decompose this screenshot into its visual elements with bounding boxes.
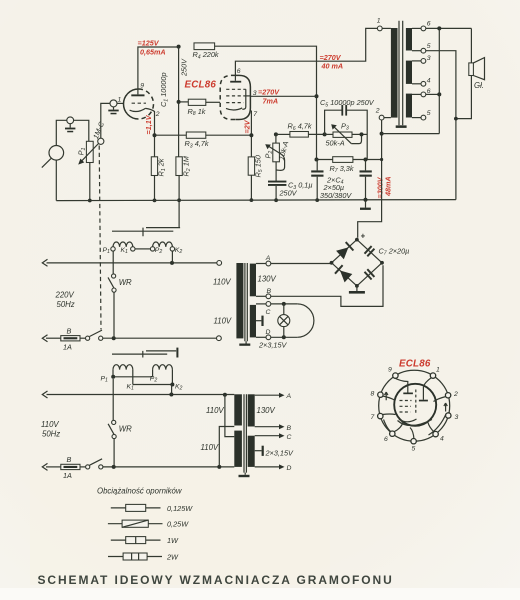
- svg-text:=1,1V: =1,1V: [144, 114, 153, 134]
- svg-text:B: B: [67, 455, 72, 464]
- socket pin 4: [433, 431, 438, 436]
- mains terminal 110V L: [42, 391, 47, 398]
- triode section ECL86: [124, 89, 155, 119]
- tap A (110V): [255, 394, 280, 396]
- svg-text:130V: 130V: [258, 274, 277, 283]
- svg-text:1W: 1W: [167, 536, 179, 545]
- svg-text:7mA: 7mA: [263, 96, 279, 105]
- svg-text:Gł.: Gł.: [474, 81, 484, 90]
- socket pin 9: [393, 373, 398, 378]
- filament screen tap (110V): [255, 450, 262, 452]
- svg-text:5: 5: [427, 110, 431, 117]
- svg-text:C: C: [266, 309, 271, 316]
- node R6/P3/C5 junction: [323, 132, 327, 136]
- terminal 3: [412, 60, 421, 62]
- svg-text:Obciążalność oporników: Obciążalność oporników: [97, 487, 183, 496]
- svg-text:50k-A: 50k-A: [326, 138, 345, 147]
- svg-text:2×3,15V: 2×3,15V: [265, 449, 295, 458]
- svg-text:+: +: [361, 232, 366, 241]
- svg-text:1: 1: [118, 96, 122, 103]
- svg-text:0,25W: 0,25W: [167, 520, 189, 529]
- wire R2 down through bus to heater screen: [178, 176, 180, 228]
- node C1/R4 junction: [177, 45, 181, 49]
- node bus/C4b/ground: [364, 198, 368, 202]
- svg-text:P2: P2: [150, 376, 158, 384]
- mains terminal 110V N: [42, 463, 47, 470]
- svg-text:K1: K1: [121, 247, 129, 255]
- wire K2 to mains (110V): [171, 385, 173, 395]
- output transformer Tr-glosnikowy: [391, 21, 412, 128]
- wire R3 left to triode cathode: [155, 134, 187, 136]
- svg-text:5: 5: [412, 446, 416, 453]
- svg-text:P2: P2: [155, 247, 163, 255]
- wire pickup hot to P1 top: [56, 120, 89, 145]
- svg-text:B: B: [287, 425, 292, 432]
- svg-text:=2V: =2V: [243, 119, 252, 133]
- power transformer T2: [201, 394, 276, 477]
- svg-text:3: 3: [455, 414, 459, 421]
- terminal D: [256, 336, 266, 338]
- wire heater P1 to WR: [112, 251, 114, 274]
- wire mains L 110V: [47, 394, 235, 396]
- wire B+ rail through R7: [317, 159, 382, 161]
- svg-text:=125V: =125V: [138, 38, 160, 47]
- chassis ground at bridge: [356, 286, 358, 291]
- svg-text:SCHEMAT IDEOWY WZMACNIACZA GRA: SCHEMAT IDEOWY WZMACNIACZA GRAMOFONU: [38, 573, 394, 587]
- diode D1: [336, 242, 353, 259]
- svg-text:R3 4,7k: R3 4,7k: [185, 139, 209, 149]
- svg-text:1A: 1A: [63, 342, 72, 351]
- terminal B: [256, 295, 266, 297]
- terminal A: [256, 263, 266, 265]
- wire K1 parallel K2: [133, 370, 173, 385]
- wire R1 to ground bus: [154, 176, 156, 201]
- tap C (110V): [255, 435, 280, 437]
- svg-text:A: A: [265, 255, 271, 262]
- legend resistor 2W: [108, 553, 179, 562]
- pentode section ECL86: [220, 75, 250, 119]
- wire R4 to +270V rail and down to screen/filter: [215, 46, 317, 159]
- svg-text:R5 150: R5 150: [254, 155, 264, 177]
- wire linking 6 taps to terminal2 line: [382, 28, 440, 133]
- svg-text:9: 9: [140, 82, 144, 89]
- wire mains L to transformer: [47, 262, 217, 264]
- node +270 filter junction: [315, 158, 319, 162]
- legend resistor 0,125W: [111, 504, 193, 513]
- svg-text:1: 1: [377, 18, 381, 25]
- node cathode junction: [249, 133, 253, 137]
- resistor R2 1M: [176, 155, 192, 176]
- dial lamp: [278, 304, 314, 337]
- chassis ground at filter: [365, 200, 367, 208]
- terminal 6 top: [412, 27, 421, 29]
- wire C to lamp: [271, 303, 297, 305]
- wire K2 down to mains L: [171, 251, 173, 263]
- capacitor C3 0,1u 250V: [268, 181, 313, 201]
- capacitor C5 10000p 250V bypass: [320, 98, 375, 160]
- wire K1 to P2 series link: [135, 248, 150, 250]
- wire terminal 6 to speaker: [426, 27, 472, 29]
- capacitor C7a: [365, 246, 375, 256]
- wire D to lamp: [271, 336, 297, 338]
- gang link dashed line P1 to mains switch: [99, 146, 101, 330]
- mains terminal 220V L: [42, 259, 47, 266]
- socket pin 1: [430, 373, 435, 378]
- switch mains pole: [80, 330, 217, 340]
- node bridge bottom: [355, 284, 359, 288]
- switch WR (110V): [108, 420, 132, 438]
- wire R8 left: [179, 101, 189, 103]
- node bridge +: [355, 238, 359, 242]
- socket pin 7: [378, 413, 383, 418]
- fuse B 1A: [46, 326, 80, 351]
- svg-text:K2: K2: [175, 247, 183, 255]
- svg-text:7: 7: [253, 111, 257, 118]
- svg-text:WR: WR: [119, 278, 132, 287]
- svg-text:110V: 110V: [213, 278, 231, 287]
- svg-text:1: 1: [436, 367, 440, 374]
- wire speaker top: [470, 28, 472, 63]
- svg-text:0,65mA: 0,65mA: [140, 48, 166, 57]
- wire P1 parallel P2: [113, 370, 153, 377]
- svg-text:B: B: [267, 288, 272, 295]
- svg-text:D: D: [266, 329, 271, 336]
- grid shield connector: [108, 100, 118, 114]
- node screen junction: [315, 94, 319, 98]
- svg-text:K1: K1: [127, 383, 135, 391]
- wire triode cathode down: [154, 111, 156, 157]
- svg-text:=270V: =270V: [258, 88, 280, 97]
- wire screen grid to +270 node: [250, 95, 316, 97]
- heater terminals P1 K1 P2 K2: [111, 247, 115, 251]
- wire B to bridge right node: [271, 265, 383, 306]
- node bridge right: [380, 261, 384, 265]
- svg-text:5: 5: [427, 43, 431, 50]
- socket pin 3: [446, 413, 451, 418]
- svg-text:D: D: [287, 465, 292, 472]
- svg-text:R8 1k: R8 1k: [188, 107, 206, 117]
- socket pin 5: [411, 439, 416, 444]
- terminal C: [256, 303, 266, 305]
- rectifier doubler diamond: [332, 240, 383, 286]
- svg-text:110V: 110V: [41, 420, 59, 429]
- svg-text:8: 8: [371, 391, 375, 398]
- wire WR to mains N: [113, 292, 115, 338]
- wire R3 right to pentode cathode: [206, 134, 252, 136]
- svg-text:4: 4: [427, 78, 431, 85]
- wire speaker bottom to ground: [456, 76, 472, 119]
- resistor R3 4,7k: [185, 132, 209, 150]
- capacitor C7b: [365, 269, 375, 279]
- heater winding 110V group: [112, 348, 178, 370]
- svg-text:7: 7: [371, 414, 375, 421]
- svg-text:48mA: 48mA: [384, 176, 393, 197]
- potentiometer P1 1M-C: [77, 120, 107, 165]
- svg-text:R7 3,3k: R7 3,3k: [330, 164, 354, 174]
- svg-text:4: 4: [440, 436, 444, 443]
- node bridge left: [330, 261, 334, 265]
- wire pickup return to ground bus: [55, 160, 57, 201]
- svg-text:9: 9: [388, 367, 392, 374]
- terminal 5 top: [412, 50, 421, 52]
- tap B (110V): [255, 426, 280, 428]
- wire terminal 5 to ground return: [426, 51, 456, 200]
- svg-text:40 mA: 40 mA: [321, 61, 344, 70]
- svg-text:K2: K2: [175, 383, 183, 391]
- terminal 6 lower: [412, 93, 421, 95]
- wire cathode node to R6: [276, 133, 290, 135]
- legend resistor 1W: [111, 536, 179, 545]
- svg-text:R6 4,7k: R6 4,7k: [288, 122, 312, 132]
- svg-text:250V: 250V: [180, 58, 189, 77]
- svg-text:220V: 220V: [55, 291, 75, 300]
- diode D2: [335, 265, 352, 282]
- svg-text:C5 10000p 250V: C5 10000p 250V: [320, 98, 375, 108]
- resistor R5 150: [248, 155, 264, 177]
- heater winding 220V group: [112, 228, 180, 247]
- wire P1 bottom to ground bus: [89, 163, 91, 201]
- svg-text:130V: 130V: [257, 406, 276, 415]
- svg-text:250V: 250V: [279, 188, 298, 197]
- svg-text:2W: 2W: [166, 553, 179, 562]
- potentiometer P2 10k-A: [264, 134, 291, 181]
- socket pin 2: [445, 393, 450, 398]
- resistor R6 4,7k: [288, 122, 312, 138]
- svg-text:50Hz: 50Hz: [57, 300, 75, 309]
- speaker Gl.: [469, 58, 485, 90]
- svg-text:3: 3: [427, 55, 431, 62]
- svg-text:ECL86: ECL86: [399, 358, 431, 369]
- node P2 tap on cathode line: [274, 132, 278, 136]
- svg-text:2: 2: [453, 391, 458, 398]
- wire R8 to pentode grid: [206, 101, 220, 103]
- svg-text:C1 10000p: C1 10000p: [159, 72, 169, 107]
- svg-text:WR: WR: [119, 425, 132, 434]
- node R8 junction: [177, 100, 181, 104]
- svg-text:0,125W: 0,125W: [167, 504, 193, 513]
- resistor R1 2k: [151, 157, 167, 177]
- switch WR: [108, 274, 132, 292]
- tap D (110V): [255, 466, 280, 468]
- svg-text:2: 2: [375, 108, 380, 115]
- resistor R7 3,3k: [330, 157, 354, 174]
- fuse B 1A (110V): [46, 455, 80, 480]
- wire pentode anode to output transformer terminal 1: [235, 28, 377, 80]
- svg-text:110V: 110V: [206, 406, 224, 415]
- svg-text:ECL86: ECL86: [185, 80, 217, 91]
- wire R5 to ground bus: [250, 175, 252, 200]
- wire WR to mains N (110V): [113, 439, 115, 467]
- switch mains pole (110V): [80, 459, 234, 469]
- svg-text:P1: P1: [101, 376, 109, 384]
- svg-text:110V: 110V: [201, 443, 219, 452]
- svg-text:C: C: [287, 434, 292, 441]
- node triode cathode / R3: [153, 133, 157, 137]
- svg-text:R1 2k: R1 2k: [157, 158, 167, 176]
- svg-text:C7 2×20µ: C7 2×20µ: [379, 246, 410, 256]
- wire A to bridge: [271, 263, 332, 265]
- ground bus: [56, 200, 456, 201]
- svg-text:6: 6: [427, 20, 431, 27]
- svg-text:6: 6: [384, 436, 388, 443]
- wire pentode cathode down: [250, 111, 252, 157]
- terminal 5 lower: [412, 117, 421, 119]
- socket pin 6: [390, 431, 395, 436]
- node C4b junction: [364, 158, 368, 162]
- mains terminal 220V N: [42, 335, 47, 342]
- svg-text:2×3,15V: 2×3,15V: [258, 340, 288, 349]
- svg-text:A: A: [286, 393, 292, 400]
- tube socket ECL86 bottom view: [379, 370, 450, 441]
- node P1 wiper terminal: [98, 138, 104, 144]
- svg-text:6: 6: [237, 68, 241, 75]
- wire R6 to P3 node: [308, 133, 324, 135]
- legend resistor 0,25W: [108, 520, 189, 529]
- resistor R8 1k: [188, 99, 206, 117]
- svg-text:B: B: [67, 326, 72, 335]
- potentiometer P3 50k-A: [325, 121, 368, 147]
- svg-text:350/380V: 350/380V: [320, 191, 352, 200]
- pickup cartridge: [42, 146, 64, 168]
- wire terminal 2 to B+ and bridge: [358, 120, 382, 238]
- svg-text:R2 1M: R2 1M: [182, 155, 192, 176]
- terminal 2: [379, 115, 384, 120]
- svg-text:110V: 110V: [214, 317, 232, 326]
- filament screen tap: [256, 320, 261, 322]
- wire wiper to triode grid pin 1: [101, 103, 110, 138]
- terminal 1: [377, 26, 382, 31]
- wire P1P2 to WR: [112, 379, 114, 420]
- power transformer T1: [213, 263, 277, 346]
- svg-text:P1: P1: [103, 247, 111, 255]
- svg-text:1A: 1A: [63, 471, 72, 480]
- svg-text:R4 220k: R4 220k: [193, 50, 219, 60]
- wire C1 node down to R8 and R2: [178, 47, 180, 157]
- socket pin 8: [378, 392, 383, 397]
- svg-text:2: 2: [155, 111, 160, 118]
- wire triode anode to R4 node: [138, 47, 179, 94]
- input shield connector: [65, 117, 75, 132]
- capacitor C4b: [360, 160, 372, 200]
- node P3 wiper tie: [360, 132, 364, 136]
- svg-text:50Hz: 50Hz: [42, 429, 60, 438]
- terminal 4: [412, 83, 421, 85]
- capacitor C4a: [311, 160, 323, 201]
- resistor R4 220k: [193, 43, 219, 61]
